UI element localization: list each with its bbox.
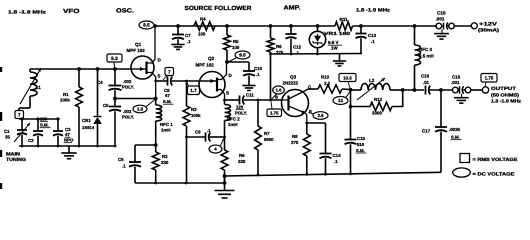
svg-text:47: 47 (165, 93, 170, 98)
svg-text:100: 100 (232, 45, 240, 50)
svg-text:C13: C13 (368, 33, 377, 38)
svg-text:RFC 1: RFC 1 (160, 122, 173, 127)
svg-text:R5: R5 (233, 39, 239, 44)
svg-text:POLY.: POLY. (122, 115, 134, 120)
svg-text:9600: 9600 (264, 137, 274, 142)
svg-text:C14: C14 (333, 153, 342, 158)
svg-text:.002: .002 (123, 79, 132, 84)
svg-text:S: S (226, 91, 229, 96)
svg-text:OSC.: OSC. (116, 8, 134, 15)
svg-text:C2: C2 (28, 138, 34, 143)
svg-text:B: B (275, 95, 278, 100)
svg-text:1.8 -1.9 MHz: 1.8 -1.9 MHz (8, 10, 47, 15)
svg-text:RFC 2: RFC 2 (227, 117, 240, 122)
svg-text:35: 35 (5, 135, 10, 140)
svg-text:1.8 -1.9 MHz: 1.8 -1.9 MHz (356, 8, 391, 14)
svg-text:C1: C1 (4, 129, 10, 134)
svg-text:270: 270 (291, 140, 299, 145)
svg-text:C4: C4 (97, 80, 103, 85)
svg-text:100k: 100k (60, 98, 70, 103)
svg-text:1.8 -1.9 MHz: 1.8 -1.9 MHz (491, 99, 522, 104)
svg-text:R8: R8 (292, 134, 298, 139)
svg-text:1.75: 1.75 (270, 111, 279, 116)
svg-text:L1: L1 (36, 85, 42, 90)
svg-text:2.2: 2.2 (324, 81, 331, 86)
svg-text:7: 7 (18, 112, 21, 117)
svg-text:C16: C16 (421, 74, 430, 79)
svg-text:POLY.: POLY. (235, 111, 247, 116)
svg-text:SOURCE FOLLOWER: SOURCE FOLLOWER (185, 5, 253, 12)
svg-text:.1: .1 (371, 39, 375, 44)
svg-text:47: 47 (65, 132, 70, 137)
svg-text:.1: .1 (256, 72, 260, 77)
svg-text:C9: C9 (195, 130, 201, 135)
svg-text:R12: R12 (374, 97, 383, 102)
svg-text:RFC 3: RFC 3 (419, 47, 432, 52)
svg-text:1.7: 1.7 (190, 88, 197, 93)
svg-text:S.M.: S.M. (356, 148, 365, 153)
svg-text:510: 510 (357, 142, 365, 147)
svg-text:120: 120 (236, 105, 244, 110)
svg-text:Q1: Q1 (135, 42, 142, 47)
svg-text:R11: R11 (340, 17, 349, 22)
svg-text:8.5: 8.5 (143, 23, 150, 28)
svg-text:VR1 180: VR1 180 (324, 31, 351, 36)
svg-text:R2: R2 (162, 154, 168, 159)
svg-text:.1: .1 (187, 39, 191, 44)
svg-text:8.6 V: 8.6 V (328, 40, 339, 45)
svg-text:1.8: 1.8 (137, 107, 144, 112)
svg-text:MPF 102: MPF 102 (196, 63, 215, 68)
svg-text:Q3: Q3 (290, 75, 297, 80)
svg-text:C15: C15 (357, 136, 365, 141)
svg-text:NPO: NPO (64, 138, 74, 143)
svg-text:C6: C6 (118, 157, 124, 162)
svg-text:CR1: CR1 (82, 118, 91, 123)
svg-text:MPF 102: MPF 102 (127, 48, 146, 53)
svg-text:AMP.: AMP. (284, 5, 301, 12)
svg-text:(30mA): (30mA) (478, 28, 500, 33)
svg-text:R1: R1 (63, 92, 69, 97)
svg-text:.001: .001 (436, 16, 445, 21)
svg-text:.0036: .0036 (449, 127, 461, 132)
svg-text:1.75: 1.75 (485, 76, 494, 81)
svg-text:7: 7 (168, 69, 171, 74)
svg-text:9.5: 9.5 (239, 53, 246, 58)
svg-text:C19: C19 (452, 75, 461, 80)
svg-text:MAIN: MAIN (6, 152, 21, 157)
svg-text:S.M.: S.M. (451, 135, 460, 140)
svg-text:C11: C11 (246, 93, 254, 98)
svg-text:C12: C12 (293, 45, 302, 50)
svg-text:R3: R3 (191, 107, 197, 112)
svg-text:150: 150 (40, 117, 48, 122)
svg-text:S: S (158, 74, 161, 79)
svg-text:1mH: 1mH (228, 122, 238, 127)
svg-text:C17: C17 (422, 129, 431, 134)
svg-text:S.M.: S.M. (163, 99, 172, 104)
svg-text:Q2: Q2 (208, 56, 215, 61)
svg-text:R7: R7 (264, 131, 270, 136)
svg-text:1N914: 1N914 (82, 125, 95, 130)
svg-text:TUNING: TUNING (6, 157, 26, 162)
svg-text:C5: C5 (103, 103, 109, 108)
svg-text:= DC VOLTAGE: = DC VOLTAGE (473, 172, 515, 177)
svg-text:VFO: VFO (63, 8, 80, 15)
svg-text:C7: C7 (185, 33, 191, 38)
svg-text:C18: C18 (437, 11, 446, 16)
svg-text:.001: .001 (451, 80, 460, 85)
svg-text:L2: L2 (369, 78, 375, 83)
svg-text:(50 OHMS): (50 OHMS) (491, 92, 520, 97)
svg-text:1W: 1W (331, 46, 338, 51)
svg-text:330: 330 (238, 159, 246, 164)
svg-text:R6: R6 (276, 44, 282, 49)
svg-text:3300: 3300 (372, 111, 382, 116)
svg-text:POLY.: POLY. (122, 85, 134, 90)
svg-text:2.6: 2.6 (317, 113, 324, 118)
svg-text:5.3: 5.3 (111, 56, 118, 62)
svg-text:2N2222: 2N2222 (283, 81, 299, 86)
svg-text:12: 12 (338, 98, 343, 103)
svg-text:10.5: 10.5 (343, 75, 352, 80)
svg-text:S.M.: S.M. (40, 123, 49, 128)
svg-text:R6: R6 (239, 153, 245, 158)
svg-text:.002: .002 (123, 109, 132, 114)
svg-text:.01: .01 (423, 80, 430, 85)
svg-text:330: 330 (161, 160, 169, 165)
svg-text:.1: .1 (122, 164, 126, 169)
svg-text:1.6: 1.6 (276, 88, 282, 93)
svg-text:= RMS VOLTAGE: = RMS VOLTAGE (473, 157, 518, 162)
svg-text:2.5 mH: 2.5 mH (419, 54, 434, 59)
svg-text:R10: R10 (321, 75, 330, 80)
svg-text:OUTPUT: OUTPUT (491, 86, 516, 92)
svg-text:C10: C10 (254, 66, 263, 71)
svg-text:100k: 100k (191, 113, 201, 118)
svg-text:1mH: 1mH (161, 128, 171, 133)
svg-text:.1: .1 (334, 159, 338, 164)
